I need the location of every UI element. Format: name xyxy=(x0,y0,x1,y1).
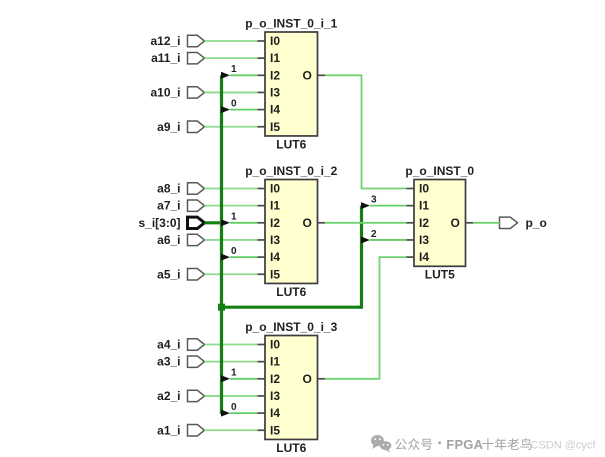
bus tap 3 xyxy=(361,194,377,209)
wire tap to LUT5 pin xyxy=(370,205,414,207)
svg-text:1: 1 xyxy=(231,212,237,223)
svg-text:LUT6: LUT6 xyxy=(276,137,306,151)
wire net a11_i xyxy=(205,57,266,59)
svg-text:I2: I2 xyxy=(270,216,280,230)
svg-text:a10_i: a10_i xyxy=(150,85,180,99)
svg-text:I4: I4 xyxy=(419,250,429,264)
wire tap to pin xyxy=(230,378,265,380)
svg-text:I4: I4 xyxy=(270,250,280,264)
svg-text:3: 3 xyxy=(371,194,377,205)
wire net top LUT6 output to LUT5 I0 xyxy=(318,75,415,188)
svg-text:1: 1 xyxy=(231,64,237,75)
svg-text:I3: I3 xyxy=(270,233,280,247)
LUT6 p_o_INST_0_i_1 xyxy=(245,16,337,151)
wire net a8_i xyxy=(205,188,266,190)
input port a12_i xyxy=(150,34,204,48)
svg-text:p_o_INST_0_i_1: p_o_INST_0_i_1 xyxy=(245,16,337,30)
bus branch vertical xyxy=(360,206,363,309)
svg-text:I3: I3 xyxy=(419,233,429,247)
LUT5 p_o_INST_0 xyxy=(405,164,474,282)
svg-text:a1_i: a1_i xyxy=(157,423,180,437)
svg-text:p_o_INST_0: p_o_INST_0 xyxy=(405,164,474,178)
svg-text:I5: I5 xyxy=(270,267,280,281)
wire net a3_i xyxy=(205,361,266,363)
svg-text:p_o: p_o xyxy=(526,216,547,230)
wire net a4_i xyxy=(205,344,266,346)
bus tap 0 xyxy=(221,98,237,113)
svg-text:FPGA: FPGA xyxy=(446,437,483,452)
input port a11_i xyxy=(151,51,204,65)
wire tap to pin xyxy=(230,74,265,76)
bus junction xyxy=(218,304,225,311)
svg-text:I3: I3 xyxy=(270,389,280,403)
wire net a6_i xyxy=(205,239,266,241)
input port a6_i xyxy=(157,233,204,247)
wire tap to pin xyxy=(230,222,265,224)
output port p_o xyxy=(500,216,547,230)
wire net a2_i xyxy=(205,395,266,397)
svg-text:0: 0 xyxy=(231,246,237,257)
wire net bottom LUT6 output to LUT5 I4 xyxy=(318,257,415,379)
svg-text:0: 0 xyxy=(231,402,237,413)
wire net a9_i xyxy=(205,126,266,128)
input port s_i[3:0] xyxy=(138,216,204,230)
svg-text:a2_i: a2_i xyxy=(157,389,180,403)
svg-text:I2: I2 xyxy=(419,216,429,230)
svg-text:1: 1 xyxy=(231,368,237,379)
bus tap 0 xyxy=(221,402,237,417)
svg-text:a12_i: a12_i xyxy=(150,34,180,48)
svg-text:2: 2 xyxy=(371,229,377,240)
svg-text:I3: I3 xyxy=(270,85,280,99)
input port a4_i xyxy=(157,338,204,352)
svg-text:I5: I5 xyxy=(270,120,280,134)
svg-text:a3_i: a3_i xyxy=(157,355,180,369)
svg-text:a4_i: a4_i xyxy=(157,338,180,352)
input port a8_i xyxy=(157,182,204,196)
svg-text:O: O xyxy=(303,68,312,82)
bus branch horizontal xyxy=(222,306,362,309)
svg-text:I0: I0 xyxy=(270,34,280,48)
wire net p_o xyxy=(466,222,500,224)
wire net a7_i xyxy=(205,205,266,207)
svg-text:I1: I1 xyxy=(270,355,280,369)
svg-text:O: O xyxy=(303,372,312,386)
svg-text:a7_i: a7_i xyxy=(157,199,180,213)
svg-text:a9_i: a9_i xyxy=(157,120,180,134)
svg-text:a5_i: a5_i xyxy=(157,267,180,281)
watermark text xyxy=(395,437,531,452)
input port a9_i xyxy=(157,120,204,134)
wire tap to LUT5 pin xyxy=(370,239,414,241)
wire s_i[3:0] bus stub xyxy=(205,221,222,224)
svg-text:a6_i: a6_i xyxy=(157,233,180,247)
wire net a5_i xyxy=(205,273,266,275)
svg-text:I5: I5 xyxy=(270,423,280,437)
svg-text:I0: I0 xyxy=(419,182,429,196)
svg-text:LUT5: LUT5 xyxy=(425,268,455,282)
svg-text:O: O xyxy=(303,216,312,230)
svg-text:O: O xyxy=(451,216,460,230)
svg-text:I2: I2 xyxy=(270,372,280,386)
input port a1_i xyxy=(157,423,204,437)
input port a3_i xyxy=(157,355,204,369)
svg-text:I1: I1 xyxy=(270,199,280,213)
bus tap 1 xyxy=(221,212,237,227)
wire tap to pin xyxy=(230,412,265,414)
svg-text:LUT6: LUT6 xyxy=(276,441,306,455)
wire net a12_i xyxy=(205,40,266,42)
svg-text:p_o_INST_0_i_2: p_o_INST_0_i_2 xyxy=(245,164,337,178)
svg-text:I0: I0 xyxy=(270,182,280,196)
svg-text:p_o_INST_0_i_3: p_o_INST_0_i_3 xyxy=(245,320,337,334)
input port a5_i xyxy=(157,267,204,281)
LUT6 p_o_INST_0_i_3 xyxy=(245,320,337,455)
svg-text:I4: I4 xyxy=(270,103,280,117)
wire tap to pin xyxy=(230,256,265,258)
svg-text:CSDN @cycf: CSDN @cycf xyxy=(531,440,597,452)
svg-text:a8_i: a8_i xyxy=(157,182,180,196)
input port a7_i xyxy=(157,199,204,213)
LUT6 p_o_INST_0_i_2 xyxy=(245,164,337,299)
svg-text:I2: I2 xyxy=(270,68,280,82)
wire net mid LUT6 output to LUT5 I2 xyxy=(318,222,415,224)
svg-text:I1: I1 xyxy=(270,51,280,65)
svg-text:I4: I4 xyxy=(270,406,280,420)
bus s_i[3:0] main vertical xyxy=(220,75,223,414)
svg-text:s_i[3:0]: s_i[3:0] xyxy=(138,216,180,230)
svg-text:a11_i: a11_i xyxy=(151,51,180,65)
wire net a1_i xyxy=(205,429,266,431)
svg-text:I1: I1 xyxy=(419,199,429,213)
svg-text:I0: I0 xyxy=(270,338,280,352)
bus tap 1 xyxy=(221,368,237,383)
svg-text:0: 0 xyxy=(231,98,237,109)
bus tap 2 xyxy=(361,229,377,244)
bus tap 1 xyxy=(221,64,237,79)
input port a10_i xyxy=(150,85,204,99)
bus tap 0 xyxy=(221,246,237,261)
watermark icon chat bubbles xyxy=(371,435,391,452)
svg-text:LUT6: LUT6 xyxy=(276,285,306,299)
wire net a10_i xyxy=(205,91,266,93)
input port a2_i xyxy=(157,389,204,403)
wire tap to pin xyxy=(230,109,265,111)
